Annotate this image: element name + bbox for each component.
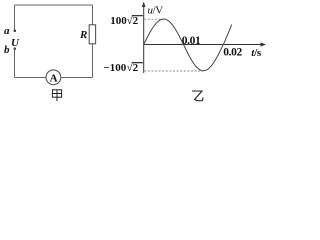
wire bottom left bbox=[15, 77, 47, 79]
svg-text:U: U bbox=[11, 37, 20, 49]
ammeter A bbox=[46, 70, 61, 85]
wire top bbox=[15, 4, 93, 6]
wire bottom right bbox=[61, 77, 93, 79]
svg-text:√2: √2 bbox=[127, 15, 139, 27]
resistor R bbox=[89, 25, 95, 44]
svg-text:u/V: u/V bbox=[148, 5, 164, 17]
svg-text:0.01: 0.01 bbox=[182, 35, 201, 47]
svg-text:R: R bbox=[79, 29, 87, 41]
svg-text:−100: −100 bbox=[104, 62, 127, 74]
y-axis u bbox=[143, 4, 145, 74]
dashed level +100root2 bbox=[144, 18, 163, 20]
svg-text:A: A bbox=[50, 73, 58, 85]
svg-text:100: 100 bbox=[110, 15, 127, 27]
wire right lower bbox=[92, 44, 94, 78]
wire right upper bbox=[92, 5, 94, 25]
wire left lower bbox=[14, 49, 16, 78]
x-axis t bbox=[144, 44, 264, 46]
label jia (circuit 甲) bbox=[52, 90, 61, 102]
wire left upper bbox=[14, 5, 16, 31]
label yi (graph 乙) bbox=[192, 91, 203, 101]
node b bbox=[14, 47, 17, 50]
node a bbox=[14, 29, 17, 32]
svg-text:b: b bbox=[4, 44, 10, 56]
svg-text:t/s: t/s bbox=[251, 47, 262, 59]
sine curve u(t) bbox=[144, 19, 232, 71]
svg-text:a: a bbox=[4, 25, 10, 37]
svg-text:√2: √2 bbox=[127, 62, 139, 74]
dashed level -100root2 bbox=[144, 70, 203, 72]
svg-text:0.02: 0.02 bbox=[223, 47, 242, 59]
